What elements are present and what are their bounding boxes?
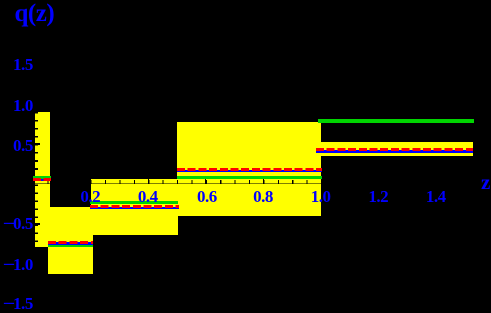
red dashed line bin5 (316, 148, 473, 151)
x tick label 1.4 (416, 189, 456, 205)
x-axis major tick 1.2 (378, 179, 379, 184)
yellow band bin4 (z 0.5-1.0) (177, 122, 321, 216)
y tick label -1.0 (0, 256, 33, 274)
y tick label -0.5 (0, 215, 33, 233)
x tick label 0.8 (243, 189, 283, 205)
y-axis major tick -0.5 (35, 223, 40, 225)
red dashed line bin2 (48, 241, 94, 244)
y tick label 1.0 (0, 97, 33, 115)
y tick label -1.5 (0, 295, 33, 313)
title q(z) (15, 0, 55, 28)
x tick label 0.4 (128, 189, 168, 205)
x-axis major tick 1.4 (436, 179, 437, 184)
red dashed line bin4 (177, 168, 322, 171)
green line bin5 (318, 119, 474, 123)
yellow band bin1 (z 0-0.05) (35, 112, 50, 247)
x-axis major tick 0.8 (263, 179, 264, 184)
yellow band bin5 (z 1.0-1.525) (321, 142, 473, 156)
y-axis minor ticks (35, 112, 38, 242)
green line bin3 (90, 201, 179, 204)
x-axis major tick 0.2 (90, 179, 91, 184)
x axis name z (481, 172, 490, 192)
y-axis line (33, 60, 34, 250)
blue line bin2 (48, 242, 94, 244)
y tick label 1.5 (0, 56, 33, 74)
yellow band bin3 (z 0.2-0.5) (91, 179, 178, 235)
y-axis major tick 0.5 (35, 143, 40, 145)
green line bin4 (177, 176, 323, 179)
x-axis line (34, 183, 481, 184)
blue line bin5 (316, 150, 473, 152)
y tick label 0.5 (0, 137, 33, 155)
blue line bin1 (33, 179, 51, 182)
blue line bin3 (90, 207, 179, 209)
x-axis major tick 0.4 (148, 179, 149, 184)
red dashed line bin3 (90, 205, 179, 208)
x-axis major tick 0.6 (205, 179, 206, 184)
x-axis major tick 1.0 (321, 179, 322, 184)
x-axis minor ticks (33, 180, 474, 184)
x tick label 0.2 (70, 189, 110, 205)
yellow band bin2 (z 0.05-0.2) (48, 207, 93, 274)
blue line bin4 (177, 170, 322, 172)
x tick label 1.0 (301, 189, 341, 205)
x tick label 0.6 (187, 189, 227, 205)
green line bin2 (48, 245, 94, 248)
x tick label 1.2 (358, 189, 398, 205)
red dashed line bin1 (33, 178, 51, 181)
green line bin1 (33, 176, 51, 179)
